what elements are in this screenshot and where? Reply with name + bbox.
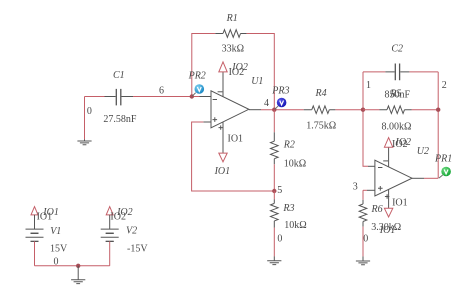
label IO1 italic (connector below U1) [214, 166, 231, 177]
svg-text:2: 2 [442, 80, 447, 91]
svg-text:0: 0 [87, 106, 92, 117]
ground (bottom center) [71, 266, 85, 284]
op-amp U1 plus mark inside [213, 117, 218, 122]
label IO1 italic (below U2 arrow) [379, 225, 396, 236]
svg-text:IO2: IO2 [110, 211, 126, 222]
label R2 [283, 140, 295, 151]
wire: net 6 from C1 to U1 inverting junction [133, 96, 192, 98]
node 2 label [442, 80, 447, 91]
wire: R1 feedback loop right leg down to node 4 [247, 34, 275, 110]
svg-text:U2: U2 [417, 146, 429, 157]
op-amp U2 plus mark inside [378, 186, 383, 191]
value 33kOhm [222, 44, 244, 55]
on-page connector IO1 below U1 [219, 153, 227, 162]
ground (left, under input wire) [77, 139, 91, 144]
voltage source V2 battery [101, 215, 119, 242]
value 27.58nF [103, 114, 136, 125]
wire: V2 bottom to ground net [109, 241, 111, 265]
wire: node 5 down to R3 [273, 191, 275, 199]
svg-text:C2: C2 [391, 43, 403, 54]
wire: net 3 into U2 non-inverting input [363, 189, 375, 191]
probe PR1 [439, 167, 451, 178]
svg-text:PR3: PR3 [271, 86, 289, 97]
on-page connector IO1 above V1 [31, 207, 38, 215]
svg-text:0: 0 [277, 233, 282, 244]
svg-text:C1: C1 [113, 70, 125, 81]
svg-text:IO1: IO1 [37, 211, 53, 222]
resistor R5 8.00k horizontal [363, 106, 438, 114]
svg-text:IO1: IO1 [214, 166, 231, 177]
label U1 [251, 76, 263, 87]
op-amp U1 bottom supply pin (to IO1) [222, 122, 224, 153]
wire: U1 non-inverting loop to node 5 [192, 122, 275, 191]
label V1 [50, 226, 61, 237]
wire: R2 to node 5 [273, 164, 275, 191]
svg-text:10kΩ: 10kΩ [284, 220, 306, 231]
svg-text:R6: R6 [371, 204, 383, 215]
svg-text:R2: R2 [283, 140, 295, 151]
value 10kOhm (R2) [284, 159, 306, 170]
wire: node 1 rail (C2/R5 left) down to U2 inverting input [363, 72, 375, 166]
junction bottom ground net [76, 264, 80, 268]
value 3.30kOhm (R6) [371, 222, 401, 233]
wire: stub into U1 inverting input [192, 96, 211, 98]
op-amp U1 plus supply marker at bottom pin [219, 125, 223, 129]
svg-text:5: 5 [277, 185, 282, 196]
label PR2 [188, 71, 206, 82]
svg-text:IO2: IO2 [395, 137, 412, 148]
svg-text:1.75kΩ: 1.75kΩ [306, 120, 336, 131]
value 15V [50, 244, 68, 255]
node 1 label [366, 80, 371, 91]
svg-text:6: 6 [159, 86, 164, 97]
svg-text:10kΩ: 10kΩ [284, 159, 306, 170]
label C1 [113, 70, 125, 81]
label IO2 italic (connector above U1) [231, 62, 248, 73]
wire: node 3 down to R6 [362, 190, 364, 200]
wire: bottom ground net between V1 and V2 [35, 265, 110, 267]
capacitor C1 [105, 89, 134, 106]
label PR3 [271, 86, 289, 97]
node 3 label [353, 181, 358, 192]
svg-text:PR1: PR1 [434, 154, 452, 165]
wire: R1 feedback loop left leg [192, 34, 216, 97]
wire: R4 to node 1 [335, 109, 363, 111]
ground (under R6) [356, 256, 370, 264]
op-amp U2 plus supply marker at bottom pin [385, 194, 389, 198]
value 1.75kOhm [306, 120, 336, 131]
junction node 2 [436, 108, 440, 112]
label IO2 upright (connector above U1) [229, 67, 245, 78]
svg-text:R5: R5 [389, 89, 401, 100]
value 850nF (C2) [385, 90, 411, 101]
label R4 [315, 88, 327, 99]
svg-text:IO2: IO2 [229, 67, 245, 78]
node 0 label (bottom net) [54, 256, 59, 267]
wire: R6 down to ground [362, 227, 364, 257]
svg-text:3.30kΩ: 3.30kΩ [371, 222, 401, 233]
label C2 [391, 43, 403, 54]
svg-text:33kΩ: 33kΩ [222, 44, 244, 55]
svg-text:R1: R1 [226, 13, 238, 24]
node 4 label [264, 98, 269, 109]
on-page connector IO2 above V2 [106, 207, 113, 215]
wire: R3 down to ground [273, 228, 275, 257]
svg-text:IO1: IO1 [392, 198, 408, 209]
junction node 4 [272, 108, 276, 112]
node 5 label [277, 185, 282, 196]
voltage source V1 battery [26, 215, 44, 242]
op-amp U2 bottom supply pin (to IO1) [388, 189, 390, 208]
label IO2 upright (above U2) [392, 139, 408, 150]
op-amp U1 minus supply marker at top pin [218, 91, 223, 93]
label V2 [126, 226, 137, 237]
op-amp U2 minus supply marker at top pin [383, 160, 388, 162]
label IO2 italic (above V2) [116, 207, 133, 218]
svg-text:1: 1 [366, 80, 371, 91]
op-amp U1 minus mark inside [213, 99, 217, 101]
svg-text:PR2: PR2 [188, 71, 206, 82]
wire: U2 output to right rail [412, 177, 438, 179]
label R5 (overlapping) [389, 89, 401, 100]
label IO2 upright (above V2) [110, 211, 126, 222]
svg-text:-15V: -15V [127, 244, 148, 255]
node 0 label (R6 ground) [363, 234, 368, 245]
label IO1 italic (above V1) [42, 207, 59, 218]
label R6 [371, 204, 383, 215]
wire: V1 bottom to ground net [34, 241, 36, 265]
ground (under R3) [267, 256, 281, 264]
resistor R2 10k vertical [271, 132, 279, 164]
junction node 6 at U1 input [190, 94, 194, 98]
wire: ground riser at far left (net 0) [84, 97, 86, 140]
svg-text:U1: U1 [251, 76, 263, 87]
op-amp U1 top supply pin (to IO2) [222, 72, 224, 97]
resistor R1 33k horizontal [215, 30, 246, 38]
wire: node 2 rail down to U2 output [437, 72, 439, 178]
value 10kOhm (R3) [284, 220, 306, 231]
svg-text:V1: V1 [50, 226, 61, 237]
wire: node 4 down to R2 [273, 110, 275, 133]
node 6 label [159, 86, 164, 97]
node 0 label (left ground) [87, 106, 92, 117]
label IO1 upright (U2 bottom pin) [392, 198, 408, 209]
op-amp U1 triangle [211, 91, 249, 128]
capacitor C2 [363, 64, 438, 81]
node 0 label (R3 ground) [277, 233, 282, 244]
label IO2 italic (above U2) [395, 137, 412, 148]
svg-text:4: 4 [264, 98, 269, 109]
svg-text:V2: V2 [126, 226, 137, 237]
svg-text:0: 0 [363, 234, 368, 245]
probe PR2 [192, 84, 204, 96]
wire: input net from ground riser to C1 left lead [85, 96, 105, 98]
svg-text:3: 3 [353, 181, 358, 192]
op-amp U2 top supply pin (to IO2) [388, 147, 390, 167]
resistor R6 3.30k vertical [359, 200, 367, 227]
on-page connector IO1 below U2 [384, 208, 392, 217]
svg-text:R4: R4 [315, 88, 327, 99]
junction node 5 [272, 189, 276, 193]
svg-text:27.58nF: 27.58nF [103, 114, 136, 125]
value -15V [127, 244, 148, 255]
label R1 [226, 13, 238, 24]
label IO1 upright (U1 bottom pin) [228, 134, 244, 145]
label U2 [417, 146, 429, 157]
svg-text:R3: R3 [282, 203, 294, 214]
on-page connector IO2 above U2 [384, 138, 392, 148]
op-amp U2 triangle [375, 160, 412, 196]
label IO1 upright (above V1) [37, 211, 53, 222]
probe PR3 [275, 98, 287, 110]
junction node 1 [361, 108, 365, 112]
op-amp U2 minus mark inside [378, 167, 382, 169]
on-page connector IO2 above U1 [219, 62, 227, 72]
svg-text:IO1: IO1 [228, 134, 244, 145]
svg-text:15V: 15V [50, 244, 68, 255]
wire: U1 output to node 4 [249, 109, 304, 111]
resistor R4 1.75k horizontal [304, 106, 336, 114]
svg-text:8.00kΩ: 8.00kΩ [382, 122, 412, 133]
resistor R3 10k vertical [271, 199, 279, 227]
label R3 [282, 203, 294, 214]
value 8.00kOhm [382, 122, 412, 133]
label PR1 [434, 154, 452, 165]
